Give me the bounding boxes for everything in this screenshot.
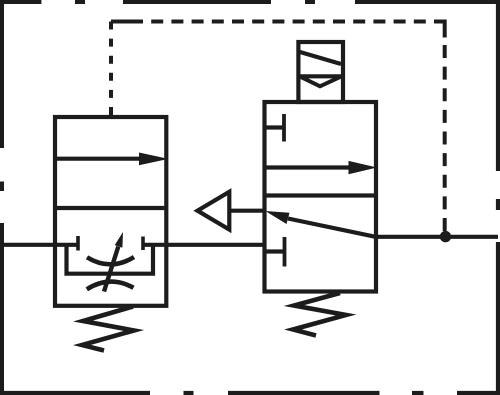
throttle lower arc (87, 282, 134, 290)
throttle adjustment arrow head (115, 232, 123, 248)
regulator seat chevron (300, 77, 341, 87)
valve V1 flow arrow head (139, 153, 169, 166)
wire: supply from left frame to valve V1 (0, 243, 55, 247)
valve V1 port wire left (55, 243, 78, 247)
pilot line right vertical to node A (dashed) (437, 22, 445, 38)
valve V1 port wire right (143, 243, 166, 247)
valve V2 flow arrow shaft (267, 165, 351, 169)
valve V2 body (3/2 pilot valve) (265, 102, 377, 292)
valve V2 blocked port T upper (266, 125, 284, 129)
valve V1 port tick left (76, 236, 80, 251)
throttle upper arc (87, 257, 134, 264)
valve V2 diagonal flow arrow head (265, 211, 289, 224)
wire: valve V2 output to right frame (376, 235, 498, 239)
valve V1 section divider (55, 206, 166, 210)
valve V2 position divider (265, 193, 377, 197)
pilot line left vertical to valve V1 (dashed) (109, 22, 113, 116)
valve V2 blocked port T lower (266, 249, 285, 253)
regulator adjustment diagonal (300, 52, 341, 64)
enclosure frame right border (dash-dot) (496, 0, 500, 395)
wire: valve V1 to valve V2 (166, 243, 265, 247)
pilot line horizontal (dashed) (111, 20, 143, 24)
valve V1 flow arrow shaft (57, 157, 141, 161)
valve V2 diagonal flow arrow shaft (288, 219, 376, 237)
node A junction dot (440, 231, 451, 242)
enclosure frame top border (dash-dot) (0, 0, 500, 4)
throttle bypass loop (67, 245, 154, 274)
throttle adjustment arrow shaft (104, 247, 118, 292)
regulator divider (298, 74, 343, 78)
valve V2 flow arrow head (349, 161, 378, 174)
enclosure frame bottom border (dash-dot) (0, 391, 500, 395)
exhaust triangle (198, 192, 230, 230)
regulator pilot box on valve V2 (298, 42, 343, 102)
valve V1 port tick right (141, 237, 145, 251)
wire: exhaust triangle to valve V2 (231, 209, 267, 213)
enclosure frame left border (dash-dot) (0, 0, 4, 395)
spring of valve V2 (293, 293, 346, 336)
valve V1 body (flow control valve) (55, 117, 166, 306)
spring of valve V1 (82, 307, 134, 351)
